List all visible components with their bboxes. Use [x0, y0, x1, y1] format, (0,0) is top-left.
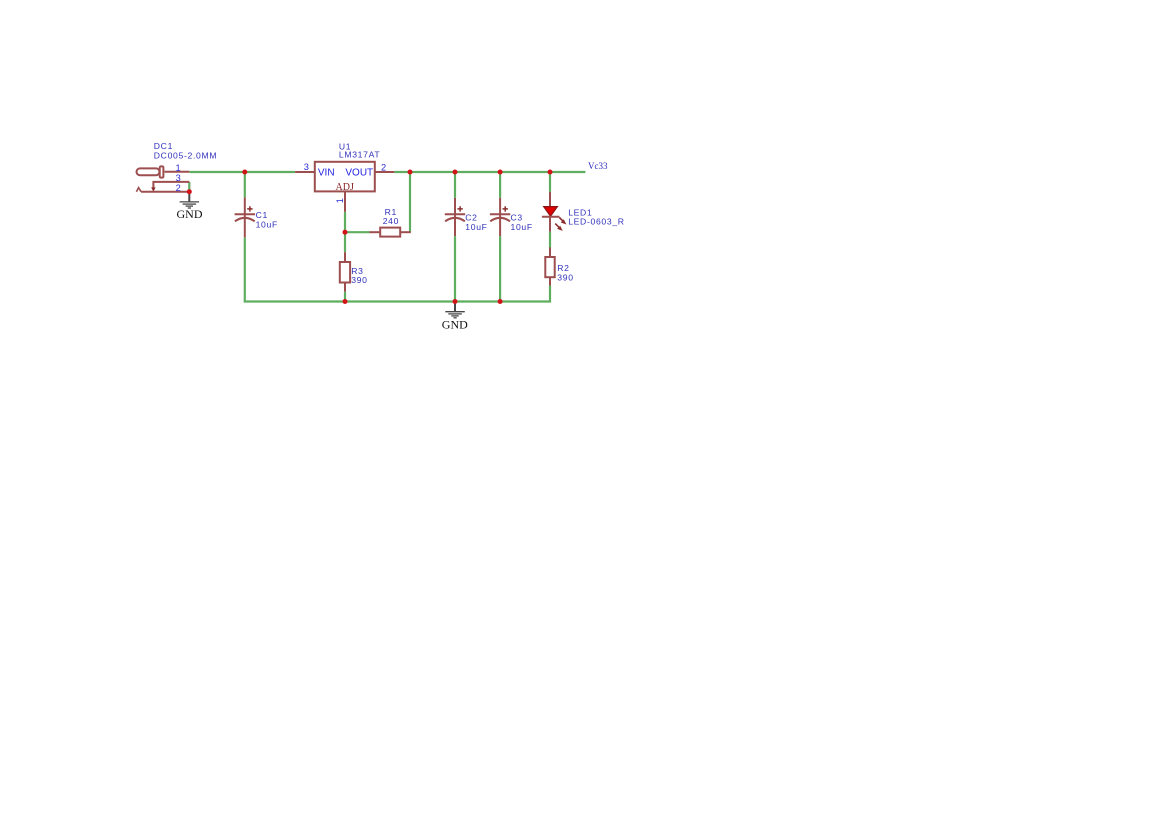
junction dot top rail at LED: [548, 170, 553, 175]
svg-text:240: 240: [383, 216, 399, 226]
capacitor C3 lower lead: [499, 215, 501, 236]
capacitor C3 upper lead: [499, 198, 501, 215]
svg-text:2: 2: [381, 163, 386, 173]
LED1 cathode bar: [542, 216, 560, 218]
wire C1 branch lower: [244, 237, 246, 302]
ground GND1 bar 3: [186, 205, 193, 207]
junction dot top rail at R1 vertical: [408, 170, 413, 175]
wire C2 branch lower: [454, 236, 456, 302]
svg-text:C1: C1: [256, 210, 268, 220]
LED1 emission arrow 2: [555, 224, 563, 231]
U1 pin 3 lead: [295, 171, 315, 173]
capacitor C2 lower lead: [454, 215, 456, 236]
resistor R1 right lead: [401, 231, 411, 233]
svg-text:10uF: 10uF: [256, 219, 278, 229]
resistor R2 upper lead: [549, 248, 551, 257]
wire C3 branch upper: [499, 171, 501, 198]
ground GND2 stem: [454, 302, 456, 312]
connector DC1 switch arrowhead: [151, 187, 155, 191]
U1 ADJ pin lead: [344, 191, 346, 211]
ground GND2 bar 3: [451, 315, 458, 317]
svg-text:Vc33: Vc33: [588, 161, 608, 171]
wire bottom rail: [244, 300, 551, 302]
svg-text:LM317AT: LM317AT: [339, 149, 380, 159]
wire R3 to bottom rail: [344, 292, 346, 302]
junction dot bottom rail at C3: [498, 299, 503, 304]
svg-text:C3: C3: [511, 212, 523, 222]
connector DC1 pin 1 lead: [165, 171, 190, 173]
LED1 cathode lead: [549, 217, 551, 232]
ground GND1 bar 4: [188, 207, 191, 209]
svg-text:VOUT: VOUT: [345, 167, 373, 178]
wire C2 branch upper: [454, 171, 456, 198]
junction dot bottom rail at C2: [453, 299, 458, 304]
connector DC1 sleeve contact caret: [136, 188, 141, 192]
connector DC1 pin 3 lead: [153, 182, 189, 189]
wire C3 branch lower: [499, 236, 501, 302]
svg-text:DC005-2.0MM: DC005-2.0MM: [154, 151, 217, 161]
capacitor C3 plus sign: [503, 206, 508, 211]
capacitor C2 upper lead: [454, 198, 456, 215]
resistor R1 left lead: [370, 231, 380, 233]
wire LED branch upper: [549, 171, 551, 192]
junction dot top rail at C1: [242, 170, 247, 175]
svg-text:10uF: 10uF: [465, 222, 487, 232]
svg-text:ADJ: ADJ: [336, 182, 354, 193]
resistor R3 upper lead: [344, 252, 346, 262]
ground GND2 bar 1: [445, 311, 465, 313]
svg-text:2: 2: [176, 183, 181, 193]
svg-text:10uF: 10uF: [511, 222, 533, 232]
capacitor C3 bottom curved plate: [490, 218, 510, 222]
resistor R3 lower lead: [344, 283, 346, 292]
capacitor C1 bottom curved plate: [235, 218, 255, 222]
resistor R2 lower lead: [549, 278, 551, 286]
capacitor C1 upper lead: [244, 197, 246, 214]
junction dot top rail at C2: [453, 170, 458, 175]
connector DC1 pin 2 lead: [141, 191, 189, 193]
wire R2 to bottom rail: [549, 286, 551, 303]
svg-text:VIN: VIN: [318, 167, 335, 178]
ground GND1 bar 1: [180, 201, 200, 203]
capacitor C2 plus sign: [457, 206, 462, 211]
svg-text:GND: GND: [177, 207, 203, 221]
wire DC jack pin3 to pin2 vertical: [188, 182, 190, 192]
U1 pin 2 lead: [375, 171, 395, 173]
LED1 anode lead: [549, 192, 551, 207]
capacitor C2 bottom curved plate: [445, 218, 465, 222]
svg-text:GND: GND: [442, 317, 468, 331]
resistor R2 body: [545, 257, 554, 277]
ground GND1 bar 2: [183, 203, 197, 205]
connector DC1 tip contact: [160, 166, 164, 177]
junction dot ADJ node: [343, 230, 348, 235]
LED1 triangle: [544, 207, 558, 217]
svg-text:390: 390: [351, 275, 367, 285]
wire top rail left segment: [189, 171, 295, 173]
svg-text:390: 390: [557, 272, 573, 282]
resistor R1 body: [380, 228, 400, 237]
LED1 emission arrow 1: [559, 218, 566, 225]
junction dot bottom rail at R3: [343, 299, 348, 304]
svg-text:DC1: DC1: [154, 141, 173, 151]
svg-text:1: 1: [335, 198, 345, 203]
capacitor C1 lower lead: [244, 215, 246, 237]
wire LED to R2: [549, 232, 551, 248]
capacitor C1 plus sign: [247, 206, 252, 211]
capacitor C2 top plate: [445, 213, 465, 215]
svg-text:1: 1: [176, 163, 181, 173]
capacitor C3 top plate: [490, 213, 510, 215]
op-amp U1 LM317 body: [315, 162, 375, 192]
wire ADJ node to R1: [345, 231, 370, 233]
wire C1 branch upper: [244, 171, 246, 197]
resistor R3 body: [340, 262, 350, 283]
ground GND1 stem: [188, 192, 190, 202]
wire top rail right segment: [394, 171, 585, 173]
svg-text:3: 3: [304, 162, 309, 172]
svg-text:LED-0603_R: LED-0603_R: [568, 216, 624, 226]
svg-text:3: 3: [176, 173, 181, 183]
ground GND2 bar 2: [448, 313, 462, 315]
junction dot top rail at C3: [498, 170, 503, 175]
wire ADJ node to R3: [344, 232, 346, 252]
junction dot DC1 pin2 node: [187, 189, 192, 194]
connector DC1 barrel body: [137, 168, 160, 175]
capacitor C1 top plate: [235, 213, 255, 215]
wire R1 right vertical to top rail: [409, 171, 411, 232]
wire ADJ pin to node: [344, 212, 346, 232]
svg-text:C2: C2: [465, 212, 477, 222]
ground GND2 bar 4: [454, 317, 457, 319]
